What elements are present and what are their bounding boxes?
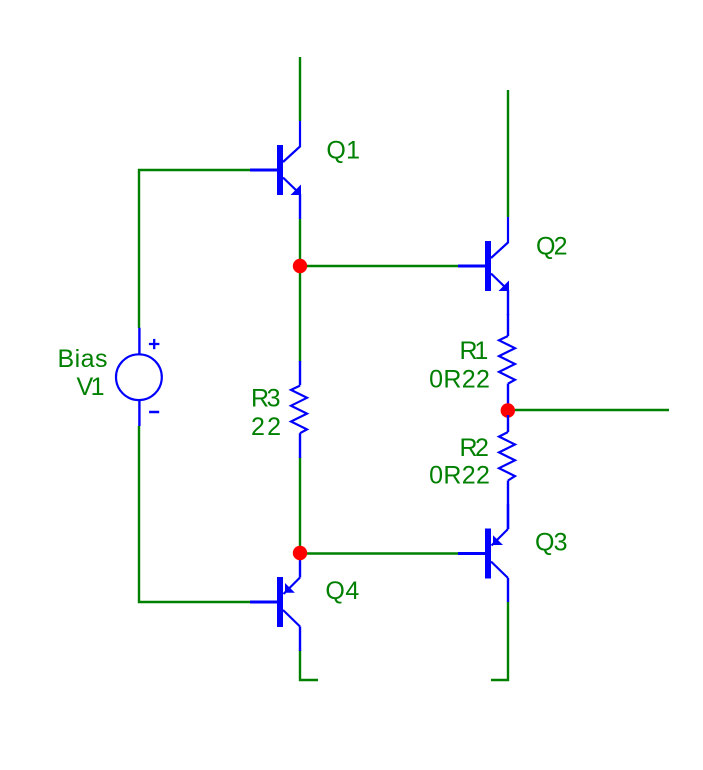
wire node A to R3 top xyxy=(299,266,301,362)
label R1 xyxy=(460,337,489,365)
wire top collector Q1 xyxy=(299,57,301,121)
wire node B to Q3 base xyxy=(300,552,459,554)
wire Q4 collector bottom stub xyxy=(300,650,318,680)
label Q3 xyxy=(535,529,568,557)
junction node C xyxy=(501,403,515,417)
label Bias xyxy=(58,345,108,373)
junction node B xyxy=(293,546,307,560)
label R2 value 0R22 xyxy=(429,461,490,489)
wire R3 bottom to node B xyxy=(299,457,301,553)
svg-text:22: 22 xyxy=(251,413,281,441)
label R1 value 0R22 xyxy=(429,365,490,393)
wire top collector Q2 xyxy=(507,90,509,217)
transistor Q4 xyxy=(250,553,300,651)
svg-text:Q1: Q1 xyxy=(326,137,360,165)
label R3 xyxy=(251,385,281,413)
resistor R1 xyxy=(499,314,515,406)
svg-text:Q4: Q4 xyxy=(325,577,359,605)
svg-text:R3: R3 xyxy=(251,385,281,413)
svg-text:Q2: Q2 xyxy=(536,233,568,261)
resistor R3 xyxy=(291,361,307,458)
wire Q1 emitter to node A xyxy=(299,219,301,266)
transistor Q2 xyxy=(458,217,509,315)
transistor Q1 xyxy=(250,121,301,219)
svg-text:R2: R2 xyxy=(460,434,489,462)
svg-text:V1: V1 xyxy=(77,373,105,401)
wire Q3 collector bottom stub xyxy=(491,602,508,680)
wire output from node C xyxy=(514,409,669,411)
transistor Q3 xyxy=(458,504,508,602)
junction node A xyxy=(293,259,307,273)
wire left bottom from V1 to Q4 base xyxy=(139,426,250,602)
label R3 value 22 xyxy=(251,413,281,441)
wire left top from Q1 base to V1 xyxy=(139,170,250,328)
svg-text:0R22: 0R22 xyxy=(429,365,490,393)
svg-text:0R22: 0R22 xyxy=(429,461,490,489)
svg-text:Q3: Q3 xyxy=(535,529,568,557)
label Q4 xyxy=(325,577,359,605)
voltage source V1 xyxy=(116,328,162,426)
svg-text:Bias: Bias xyxy=(58,345,108,373)
label V1 xyxy=(77,373,105,401)
label Q1 xyxy=(326,137,360,165)
label R2 xyxy=(460,434,489,462)
wire node A to Q2 base xyxy=(300,265,459,267)
label Q2 xyxy=(536,233,568,261)
svg-text:R1: R1 xyxy=(460,337,489,365)
resistor R2 xyxy=(499,415,515,529)
